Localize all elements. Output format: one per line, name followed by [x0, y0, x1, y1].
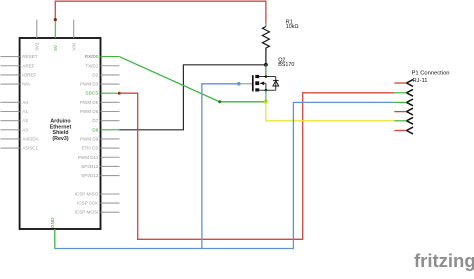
svg-text:10kΩ: 10kΩ [286, 24, 299, 30]
svg-text:A3: A3 [22, 127, 28, 132]
svg-text:SPI/D12: SPI/D12 [81, 164, 99, 169]
svg-text:5V: 5V [53, 44, 58, 51]
svg-text:RJ-11: RJ-11 [413, 78, 428, 84]
svg-text:ICSP MOSI: ICSP MOSI [75, 210, 99, 215]
svg-text:BS170: BS170 [278, 62, 294, 68]
svg-text:fritzing: fritzing [414, 250, 474, 271]
svg-text:A1: A1 [22, 109, 28, 114]
svg-text:IOREF: IOREF [22, 72, 36, 77]
svg-text:RX/D0: RX/D0 [85, 54, 99, 59]
svg-text:PWM D6: PWM D6 [80, 109, 99, 114]
svg-text:ETH CS: ETH CS [81, 146, 98, 151]
svg-text:PWM D3: PWM D3 [80, 82, 99, 87]
svg-text:A4/SDA: A4/SDA [22, 136, 39, 141]
svg-text:TX/D1: TX/D1 [85, 63, 98, 68]
svg-text:AREF: AREF [22, 63, 34, 68]
svg-text:A5/SCL: A5/SCL [22, 146, 38, 151]
svg-text:PWM D9: PWM D9 [80, 136, 99, 141]
svg-text:GND: GND [50, 217, 55, 228]
svg-text:D8: D8 [92, 127, 98, 132]
svg-text:SPI/D13: SPI/D13 [81, 173, 99, 178]
svg-text:ICSP MISO: ICSP MISO [75, 192, 99, 197]
svg-text:A0: A0 [22, 100, 28, 105]
svg-text:P1 Connection: P1 Connection [412, 71, 450, 77]
svg-text:(Rev3): (Rev3) [52, 136, 68, 142]
svg-text:ICSP SCK: ICSP SCK [77, 201, 99, 206]
svg-text:D2: D2 [92, 72, 98, 77]
svg-text:3V3: 3V3 [35, 42, 40, 51]
svg-text:PWM D5: PWM D5 [80, 100, 99, 105]
svg-text:SDCS: SDCS [86, 91, 99, 96]
svg-text:VIN: VIN [71, 43, 76, 51]
svg-text:RESET: RESET [22, 54, 38, 59]
svg-text:PWM D11: PWM D11 [78, 155, 99, 160]
svg-text:A2: A2 [22, 118, 28, 123]
svg-text:D7: D7 [92, 118, 98, 123]
svg-text:N/A: N/A [22, 82, 31, 87]
